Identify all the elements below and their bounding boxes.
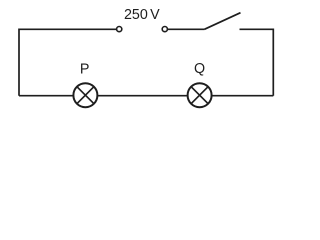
wire bottom-right (lamp Q to right corner) bbox=[212, 95, 274, 97]
value label 250 V bbox=[124, 7, 160, 23]
svg-text:250V: 250V bbox=[124, 7, 160, 23]
lamp Q bbox=[188, 83, 212, 107]
wire between lamps P and Q bbox=[97, 95, 187, 97]
wire top-right (switch fixed contact to right corner) bbox=[240, 29, 274, 95]
label Q bbox=[194, 61, 205, 77]
lamp P bbox=[73, 83, 97, 107]
svg-text:Q: Q bbox=[194, 61, 205, 77]
supply terminal left bbox=[117, 27, 122, 32]
switch S1 (open blade) bbox=[204, 13, 240, 30]
wire top-left (from left corner to supply terminal) bbox=[19, 29, 116, 95]
supply terminal right bbox=[162, 27, 167, 32]
svg-text:P: P bbox=[80, 62, 90, 78]
wire from right supply terminal to switch pivot bbox=[168, 28, 205, 30]
label P bbox=[80, 62, 90, 78]
wire bottom-left (left corner to lamp P) bbox=[19, 95, 73, 97]
